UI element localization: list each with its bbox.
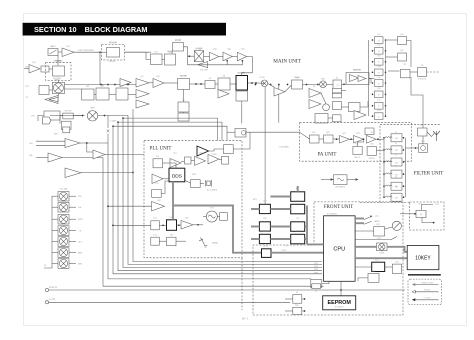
- wire VR bus left: [51, 196, 53, 264]
- vco out box: [220, 213, 228, 221]
- ferrite bead box: [312, 284, 321, 289]
- TX VCO box: [44, 111, 60, 120]
- x2 multiplier box: [173, 43, 184, 52]
- svg-text:SP: SP: [296, 292, 298, 294]
- mute gate box: [315, 114, 328, 124]
- IC compander: [107, 48, 120, 58]
- svg-text:SW: SW: [371, 132, 374, 134]
- bus col1 r1 left: [251, 208, 259, 210]
- mixer 3rd: [320, 81, 327, 88]
- svg-text:IC9 LIM: IC9 LIM: [55, 60, 62, 62]
- pll tri left of DDS: [152, 174, 163, 184]
- svg-text:IC6: IC6: [296, 231, 299, 233]
- svg-text:4.8MHz: 4.8MHz: [212, 243, 218, 245]
- latch bold box: [262, 249, 272, 258]
- svg-text:EXT: EXT: [435, 204, 438, 206]
- legend row 3 filled arrow: [412, 298, 415, 301]
- junction dots F1: [383, 137, 404, 139]
- wire cf1bc: [183, 112, 185, 113]
- io bold box col2 r1: [291, 192, 305, 202]
- wire pllrow2 out: [193, 224, 203, 226]
- CPU IC box: [324, 216, 356, 281]
- bus col2 collect: [306, 206, 308, 245]
- svg-text:FI4: FI4: [421, 65, 424, 67]
- pll vco bold box: [167, 220, 177, 231]
- svg-text:FI1: FI1: [223, 76, 226, 78]
- svg-text:IC11: IC11: [154, 52, 158, 54]
- wire detamp out: [285, 85, 292, 92]
- svg-text:X1: X1: [315, 291, 317, 293]
- wire tx bias line: [50, 115, 81, 117]
- svg-text:Q52: Q52: [400, 50, 403, 52]
- wire shift to dds: [161, 181, 169, 193]
- VR control CH: [58, 226, 69, 236]
- wire tri1-2: [219, 56, 223, 58]
- wire long MIC line: [49, 301, 290, 303]
- wire xf out: [342, 83, 347, 85]
- wire mix3 out: [327, 83, 334, 85]
- wire staircase v5: [123, 118, 322, 268]
- wire comp out: [125, 51, 152, 53]
- crystal symbol REF: [206, 180, 212, 187]
- ceramic filter CF2: [218, 78, 230, 90]
- svg-text:CONNECT LINE: CONNECT LINE: [421, 282, 433, 284]
- tx mod box with X: [194, 51, 203, 62]
- dashed FRONT UNIT border: [253, 202, 403, 315]
- IF amp box: [205, 81, 215, 89]
- op-amp buffer left b: [49, 97, 58, 102]
- wire pll row1b link: [209, 149, 224, 151]
- svg-text:VCO: VCO: [210, 208, 215, 210]
- pa amp tri 2: [354, 136, 364, 144]
- wire filter bus left: [383, 138, 385, 197]
- ant relay box: [419, 144, 428, 153]
- svg-text:IC2 MIX: IC2 MIX: [238, 72, 245, 74]
- svg-text:Q45: Q45: [241, 49, 244, 51]
- legend row 2 open arrow: [412, 290, 415, 293]
- wire mic input: [24, 68, 29, 70]
- wire mod input: [49, 89, 52, 91]
- wire lowrow2: [360, 101, 368, 107]
- svg-text:IC10 uPC: IC10 uPC: [109, 43, 117, 45]
- wire cf2 out: [230, 83, 236, 85]
- wire mute gate: [328, 117, 333, 119]
- pll lpf box: [185, 157, 192, 164]
- svg-text:Q43: Q43: [213, 49, 216, 51]
- svg-text:FI5: FI5: [182, 99, 185, 101]
- wire staircase v7: [133, 109, 322, 262]
- wire VR BEEP right: [69, 252, 76, 254]
- VR control SQL: [58, 203, 69, 213]
- mod input box: [39, 86, 49, 95]
- bus DDS to CPU: [173, 206, 262, 253]
- svg-text:10 - 1: 10 - 1: [242, 317, 249, 321]
- svg-text:TONE: TONE: [77, 219, 83, 221]
- wire pll ref line 2: [118, 122, 222, 140]
- wire alc line: [227, 131, 235, 133]
- svg-text:IC24: IC24: [153, 234, 157, 236]
- svg-text:MONI: MONI: [374, 221, 379, 223]
- wire opamp2 out: [62, 157, 103, 159]
- junction pll row2 feed: [112, 224, 114, 226]
- svg-text:X2 OSC: X2 OSC: [175, 40, 182, 42]
- mixer chain box R8: [375, 113, 384, 120]
- wire sw2: [364, 221, 372, 224]
- io bold box col2 r4: [291, 234, 305, 244]
- pll div box 2: [151, 221, 160, 230]
- svg-text:PLL UNIT: PLL UNIT: [150, 147, 172, 152]
- svg-text:Q11: Q11: [140, 76, 143, 78]
- TX buffer box: [63, 113, 73, 119]
- inductor coil F5: [385, 185, 392, 186]
- svg-text:D63: D63: [370, 143, 373, 145]
- wire pll 4: [219, 159, 222, 161]
- pll amp tri 1: [170, 159, 181, 168]
- svg-text:IC5: IC5: [296, 218, 299, 220]
- svg-text:AFO: AFO: [29, 142, 34, 145]
- rf amp tri 2: [136, 90, 149, 99]
- wire staircase v3: [113, 126, 322, 274]
- junction dots pll2: [162, 224, 199, 226]
- junction ant relay: [415, 147, 417, 149]
- VR control DIM: [58, 259, 69, 269]
- inductor coil F6: [385, 196, 392, 197]
- bus lamp to 10key: [387, 247, 407, 252]
- wire mod to tri1: [204, 55, 210, 57]
- junction opamp3 out: [132, 172, 134, 174]
- svg-text:RF LINE: RF LINE: [424, 290, 430, 292]
- wire VR CH right: [69, 230, 76, 232]
- svg-text:BEEP: BEEP: [78, 252, 83, 254]
- BPF box 1: [82, 89, 95, 100]
- wire det2 link: [386, 56, 398, 58]
- svg-text:X3: X3: [404, 64, 406, 66]
- wire VR TONE right: [69, 218, 76, 220]
- wire dds top: [170, 163, 176, 168]
- wire VR TONE left: [52, 218, 58, 220]
- svg-text:Q62: Q62: [326, 132, 329, 134]
- io bold box col2 r3: [291, 222, 305, 232]
- wire tri2-3: [232, 56, 237, 58]
- mod box 3: [63, 127, 70, 133]
- wire bpf3 to tri: [128, 94, 136, 96]
- ant relay circle: [421, 146, 426, 151]
- bus col2 r4 link: [305, 238, 307, 240]
- wire lo vert b: [107, 134, 109, 144]
- svg-text:VOL SQL: VOL SQL: [59, 189, 68, 191]
- ext sp jack box: [416, 210, 426, 217]
- apc box: [151, 54, 163, 65]
- DA converter box a: [333, 88, 342, 93]
- op-amp in IF 2: [358, 76, 366, 82]
- legend row 1 line: [415, 284, 438, 286]
- pa left box: [235, 129, 246, 138]
- jack sp dot: [304, 298, 306, 300]
- pll det box: [222, 156, 229, 164]
- svg-text:D21 MOD: D21 MOD: [53, 78, 61, 80]
- wire tr sw up: [38, 116, 44, 122]
- wire top chain 1: [125, 52, 151, 59]
- VR control TONE: [58, 215, 69, 225]
- wire ifamp out: [215, 83, 218, 85]
- tx amp tri 2: [223, 52, 232, 61]
- svg-text:CD28 MUTE: CD28 MUTE: [335, 186, 346, 188]
- svg-text:L6: L6: [395, 186, 397, 188]
- wire filter bus right: [405, 138, 407, 197]
- wire R1 to det1: [386, 39, 398, 41]
- wire ant in: [422, 124, 424, 128]
- crystal filter box: [333, 80, 342, 89]
- svg-text:BZ1: BZ1: [395, 261, 398, 263]
- wire limiter to mod: [57, 81, 59, 83]
- jack SP: [293, 295, 302, 304]
- wire VR BEEP left: [52, 252, 58, 254]
- IC limiter: [53, 66, 65, 76]
- wire apc-drive: [162, 59, 165, 61]
- tx amp tri rev: [198, 62, 208, 68]
- wire if to column: [370, 79, 372, 84]
- wire IF out: [369, 78, 375, 80]
- VR control BEEP: [58, 248, 69, 257]
- mic pentagon symbol: [43, 117, 52, 124]
- svg-text:21.4MHz: 21.4MHz: [110, 121, 117, 123]
- junction dots main chain: [255, 83, 345, 85]
- ref osc right box: [401, 69, 411, 78]
- buffer box right: [349, 103, 361, 112]
- svg-text:Q42: Q42: [198, 49, 201, 51]
- wire VR VOL right: [69, 195, 76, 197]
- wire sq switch: [390, 237, 397, 241]
- svg-text:Q21: Q21: [173, 153, 176, 155]
- wire mic amp to IC: [49, 68, 53, 70]
- VR control VOL: [58, 192, 69, 202]
- wire r col link: [388, 70, 400, 72]
- svg-text:Q31: Q31: [66, 46, 69, 48]
- svg-text:D62: D62: [355, 143, 358, 145]
- svg-text:IC1 FM IF: IC1 FM IF: [353, 70, 361, 72]
- wire top right link: [369, 78, 371, 80]
- drive box: [165, 54, 176, 65]
- svg-text:FI3: FI3: [296, 78, 299, 80]
- reset ic box: [368, 273, 379, 282]
- op-amp buffer mid: [93, 150, 105, 159]
- tx amp tri 3: [237, 52, 246, 61]
- rf amp tri 1: [136, 79, 149, 88]
- node TX audio: [99, 51, 101, 53]
- AF volume box: [48, 49, 58, 56]
- wire jack mic right: [302, 310, 305, 312]
- dashed PA UNIT box: [300, 123, 412, 162]
- arrowhead if module out: [356, 178, 359, 180]
- junction dots tx fb: [188, 55, 243, 61]
- pa pre box: [310, 135, 320, 143]
- inductor coil F4: [385, 173, 392, 174]
- op-amp buffer left a: [45, 96, 58, 104]
- det box 2: [398, 53, 407, 61]
- io bold box col2 r2: [291, 204, 305, 214]
- junction dots rx row2: [195, 83, 202, 85]
- wire pll row2 feed: [113, 224, 151, 226]
- filter box F4: [391, 170, 402, 178]
- wire beep link: [385, 266, 393, 268]
- wire bpf 1-2: [94, 94, 96, 96]
- svg-text:LINE COMPANDER: LINE COMPANDER: [78, 49, 94, 52]
- svg-text:IC23: IC23: [153, 218, 157, 220]
- wire pll mix to xtal: [200, 183, 204, 185]
- mod box 2: [62, 121, 72, 129]
- svg-text:L4: L4: [395, 165, 397, 167]
- svg-text:Q12: Q12: [100, 86, 103, 88]
- mixer chain box R4: [375, 69, 384, 76]
- noise filter box: [292, 80, 303, 89]
- wire mixer down col1: [264, 87, 266, 205]
- wire pll 3: [191, 160, 195, 162]
- svg-text:SP MUTE: SP MUTE: [49, 287, 58, 289]
- mixer 2nd small: [261, 80, 268, 87]
- local amp tri: [218, 90, 229, 99]
- svg-text:L21: L21: [121, 86, 124, 88]
- dashed option box 2: [102, 45, 125, 61]
- cpu xtal box: [311, 280, 322, 288]
- bus latch to CPU: [271, 252, 324, 254]
- svg-text:Q9: Q9: [209, 78, 211, 80]
- filter box F6: [391, 193, 402, 201]
- ant tune box: [418, 128, 428, 136]
- dashed xtf right: [427, 71, 441, 73]
- svg-text:SP: SP: [420, 214, 422, 216]
- svg-text:IC31: IC31: [375, 260, 379, 262]
- wire det1 right: [407, 41, 412, 68]
- bus col2 r2 link: [270, 208, 290, 210]
- junction dots F3: [383, 161, 404, 163]
- wire pll 2: [181, 161, 185, 163]
- pll ref div box: [153, 159, 163, 168]
- svg-text:OPTION: OPTION: [109, 61, 116, 63]
- wire alc line 2: [246, 131, 300, 133]
- mixer modulator: [52, 82, 64, 93]
- wire pllrow2 a: [159, 224, 166, 226]
- svg-text:MAIN UNIT: MAIN UNIT: [273, 59, 301, 65]
- wire cpu to lcd: [355, 230, 374, 232]
- op-amp af det 1: [309, 89, 321, 98]
- dashed ext speaker box: [410, 202, 445, 230]
- bus 10key bottom bar: [408, 274, 441, 276]
- svg-text:EEPROM: EEPROM: [328, 300, 352, 306]
- mixer TX: [87, 111, 97, 121]
- svg-text:IC21: IC21: [156, 156, 160, 158]
- op-amp AF out 1: [65, 139, 80, 148]
- pll lpf box 3: [167, 237, 177, 246]
- rf amp tri 4: [153, 79, 164, 88]
- wire main out right vert: [258, 82, 265, 84]
- bus cpu right 1: [355, 218, 364, 220]
- svg-text:Q27: Q27: [185, 218, 188, 220]
- FM IF IC box: [346, 73, 369, 85]
- dot ext sp in: [414, 213, 416, 215]
- pll div box 3: [151, 237, 160, 245]
- svg-text:X-TAL FIL: X-TAL FIL: [418, 78, 428, 81]
- wire pa in: [300, 132, 310, 139]
- junction dots R6: [372, 94, 387, 96]
- svg-text:SECTION 10 BLOCK DIAGRAM: SECTION 10 BLOCK DIAGRAM: [34, 25, 148, 34]
- antenna symbol: [433, 131, 440, 141]
- junction dots F4: [383, 173, 404, 175]
- wire VR SQL right: [69, 206, 76, 208]
- svg-text:IC8 AF: IC8 AF: [50, 45, 55, 48]
- wire node down to modulator: [99, 52, 101, 84]
- wire pll out right: [233, 132, 250, 149]
- arrowhead sw1: [370, 215, 373, 217]
- svg-text:L1: L1: [395, 132, 397, 134]
- junction eeprom wire: [340, 289, 342, 291]
- svg-text:BPF: BPF: [86, 86, 89, 88]
- wire staircase v1: [102, 158, 104, 287]
- bus col2 r1 link: [270, 196, 290, 198]
- svg-text:Q63: Q63: [342, 133, 345, 135]
- op-amp det amp: [274, 88, 285, 97]
- junction dots R7: [372, 105, 387, 107]
- wire x2 out right: [184, 47, 188, 56]
- svg-text:FI2 CER: FI2 CER: [180, 75, 187, 77]
- xtal osc box: [236, 91, 248, 101]
- svg-text:D71: D71: [420, 125, 423, 127]
- beep spk box: [392, 264, 401, 273]
- ceramic filter CF1: [178, 79, 190, 90]
- wire pll ref line 1: [123, 118, 218, 140]
- svg-text:D83: D83: [263, 231, 266, 233]
- svg-text:D15: D15: [377, 77, 380, 79]
- varactor symbol: [199, 238, 207, 248]
- DA converter box b: [333, 93, 342, 98]
- dot ext sp: [433, 222, 435, 224]
- wire pa to filter link: [376, 149, 384, 151]
- svg-text:8 V LINE: 8 V LINE: [424, 298, 431, 300]
- op-amp squelch: [48, 153, 62, 162]
- svg-text:PA UNIT: PA UNIT: [318, 153, 337, 158]
- svg-text:VCXO: VCXO: [211, 154, 217, 156]
- svg-text:D12: D12: [377, 45, 380, 47]
- wire nf out: [303, 84, 320, 86]
- svg-text:Q41: Q41: [168, 51, 171, 53]
- IF module box: [334, 175, 348, 185]
- pll buf box: [224, 145, 234, 154]
- svg-text:Q61: Q61: [312, 132, 315, 134]
- svg-text:RL1: RL1: [421, 141, 424, 143]
- wire VR bus bottom: [44, 264, 52, 269]
- svg-text:10.695MHz: 10.695MHz: [279, 147, 289, 149]
- wire buffer to mixer: [73, 115, 84, 117]
- filter box F1: [391, 134, 402, 142]
- mixer 2nd bold: [236, 76, 248, 91]
- wire ext sp down: [422, 218, 434, 223]
- pa amp tri 3: [367, 135, 377, 143]
- IF module inner symbol: [337, 178, 344, 181]
- AF volume arrow: [50, 50, 57, 54]
- wire vco right: [217, 216, 219, 218]
- op-amp in IF: [350, 75, 359, 82]
- op-amp AF amp: [62, 48, 74, 57]
- svg-text:8V EXT: 8V EXT: [49, 299, 56, 301]
- junction dots rx row3: [251, 82, 257, 84]
- io bold box col1 r1: [259, 204, 270, 213]
- wire right vert down: [411, 77, 423, 124]
- junction dots bus: [112, 117, 124, 127]
- dashed option box 1: [46, 63, 71, 81]
- svg-text:X2 15.36MHz: X2 15.36MHz: [207, 190, 218, 192]
- mute box low: [333, 115, 342, 122]
- wire if module in: [321, 179, 334, 181]
- dashed PLL UNIT box: [144, 140, 242, 257]
